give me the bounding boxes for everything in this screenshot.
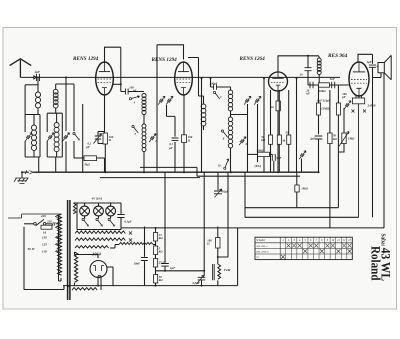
wire L2 y217 [245, 216, 359, 218]
divider feed lead [110, 245, 119, 249]
capacitor 300pF [214, 84, 217, 90]
node x264 [263, 77, 265, 79]
wire 100pF line [121, 91, 144, 93]
switch contact 11 [82, 218, 84, 220]
coil L2 secondary [53, 89, 58, 94]
wire main signal line y77 [40, 76, 341, 78]
wire L3 y227 [121, 227, 384, 229]
ground lead [22, 172, 29, 178]
svg-text:13: 13 [112, 223, 116, 227]
svg-text:pF: pF [341, 95, 346, 99]
switch contact 13 [108, 218, 110, 220]
svg-text:Feld: Feld [224, 268, 231, 272]
capacitor 4uF [369, 65, 376, 67]
switch contact 8 [221, 130, 223, 132]
wire 5k to cathode net [97, 158, 105, 172]
wire L4 to bus [55, 157, 57, 172]
tube V3 RENS 1264 [269, 72, 288, 91]
lamp bus bottom [77, 203, 121, 230]
resistor wirewound feed [119, 242, 153, 244]
wire row rail c low [288, 144, 290, 172]
wire rail x257 [257, 104, 259, 162]
coil detector [317, 58, 321, 62]
heater mark a [352, 110, 355, 113]
resistor row3 [287, 135, 291, 144]
node det top [307, 55, 309, 57]
lamp bus top [73, 202, 121, 204]
bus y177 [100, 177, 200, 179]
heater winding 1 end [129, 231, 132, 234]
primary top lead [8, 214, 61, 218]
wire pot rail [343, 108, 345, 133]
wire y270 [156, 270, 205, 272]
10nF low [144, 261, 146, 285]
resistor row2 [277, 135, 281, 144]
wire V3 plate drop [277, 91, 279, 101]
wire TA cap stub [273, 154, 275, 172]
capacitor 20nF grid [310, 82, 313, 88]
wire rail x372 [372, 78, 374, 218]
svg-text:5kΩ: 5kΩ [85, 163, 91, 167]
capacitor 100pF [126, 89, 129, 95]
lamp 2 lower lead [98, 215, 100, 218]
05uF low [201, 280, 203, 286]
dial lamp 1 [80, 206, 90, 216]
svg-text:10nF: 10nF [134, 262, 141, 266]
capacitor 1uF box [317, 103, 321, 115]
svg-text:50µF: 50µF [222, 189, 229, 193]
wire rail x296 [296, 78, 298, 172]
resistor 100 Ohm field [216, 238, 220, 249]
node divider feed [155, 227, 157, 229]
wire L left vertical [244, 172, 246, 217]
filament winding lead [98, 276, 101, 290]
divider top [155, 228, 157, 233]
svg-text:125: 125 [42, 242, 47, 246]
potentiometer 1MOhm volume [342, 133, 346, 144]
bus y167 step [140, 167, 300, 176]
lamp cap stub [120, 203, 122, 214]
switch contact 10 [225, 159, 228, 167]
field res low [217, 248, 219, 264]
tube V2 RENS 1294 [175, 62, 193, 95]
wire rail x201 upper [201, 78, 203, 172]
tube V1 RENS 1294 [96, 62, 114, 95]
resistor divider 5k [154, 246, 158, 255]
resistor bias 24500 [352, 98, 364, 104]
trimmer 100pF [344, 101, 351, 109]
svg-text:5nF: 5nF [330, 77, 335, 81]
svg-text:µF: µF [85, 145, 90, 149]
coil L1 antenna primary [35, 92, 40, 97]
wire rail x264 [263, 78, 265, 172]
wire IF1 to bus [143, 152, 145, 173]
trimmer 6 [149, 134, 156, 142]
wire pot low [338, 144, 344, 152]
wire rail x66 lower [65, 142, 67, 173]
lamp 2 lead [98, 203, 100, 207]
svg-text:4V 0,9A: 4V 0,9A [91, 197, 103, 201]
resistor divider 25k [154, 259, 158, 268]
wire row rail b low [278, 144, 280, 172]
svg-text:RES 964: RES 964 [328, 53, 348, 59]
wire L3 to bus [38, 157, 40, 172]
capacitor 50uF arrow [215, 189, 222, 198]
svg-text:50: 50 [286, 130, 290, 134]
node bus bottom a [97, 285, 99, 287]
wire det cap drop [307, 56, 309, 85]
svg-text:0,1µF: 0,1µF [124, 220, 131, 224]
wire rail x157 [156, 45, 158, 172]
node bus d [230, 171, 232, 173]
variable capacitor gang section 2b [166, 96, 173, 104]
node bus a [104, 171, 106, 173]
switch contact 11 pickup [299, 151, 306, 159]
capacitor 0,1uF lamp [117, 215, 124, 218]
resistor 100 Ohm cathode V2 [182, 135, 187, 143]
svg-text:11: 11 [86, 223, 89, 227]
svg-text:4k: 4k [281, 139, 286, 143]
svg-text:220: 220 [46, 220, 52, 224]
svg-text:(1MΩ): (1MΩ) [322, 107, 330, 111]
wire V3 below 4k [277, 111, 279, 172]
svg-text:TA: TA [256, 256, 259, 259]
wire 1M stub [296, 172, 298, 185]
wire switch 10 rail [218, 172, 228, 257]
node y270 cross [203, 270, 205, 272]
HV bottom lead [74, 283, 76, 286]
fuse 1A [41, 225, 52, 229]
svg-text:10: 10 [218, 164, 222, 168]
wire af line y85 [308, 84, 349, 86]
resistor 50kOhm row1 [269, 135, 273, 144]
coil osc secondary [228, 117, 232, 121]
field res stub [217, 227, 219, 238]
1uF to y270 [164, 266, 166, 271]
heater mark b [363, 110, 366, 113]
wire trimmer jog [167, 105, 176, 116]
wire osc link [231, 111, 248, 117]
wire cap2 low [318, 139, 320, 172]
svg-text:50 W: 50 W [28, 247, 36, 251]
svg-text:12: 12 [100, 223, 104, 227]
tube V4 RES 964 [349, 62, 369, 96]
antenna [10, 59, 32, 78]
mains lead 2 [46, 222, 59, 225]
wire cap 01uF stub down [174, 142, 176, 172]
wire 1M to L-wire [296, 192, 298, 208]
capacitor 2uF [315, 136, 323, 139]
wire antenna to coupling cap [20, 76, 36, 79]
node ground tie [21, 171, 23, 173]
transformer lamp winding [73, 203, 76, 214]
rectifier right lead [107, 267, 113, 286]
capacitor 5nF af [332, 82, 335, 88]
coil L4 tuned [54, 123, 59, 128]
transformer HV winding [75, 252, 78, 282]
bottom bus arrow [68, 284, 71, 287]
tuned circuit 2 frame [47, 113, 62, 157]
svg-text:2µF: 2µF [309, 137, 315, 141]
wire IF1 link [143, 115, 145, 125]
wire row rail c [288, 90, 290, 135]
lamp 3 lower lead [110, 215, 112, 218]
divider bottom [155, 283, 157, 286]
dial lamp 2 [94, 206, 104, 216]
svg-text:0,5µF: 0,5µF [193, 281, 200, 285]
coil L3 tuned [31, 125, 36, 130]
bus main y172 [33, 171, 319, 173]
capacitor 0,5uF box [336, 103, 340, 115]
wire V4 below box [356, 96, 362, 217]
wire L1 y207 [245, 207, 338, 209]
resistor 10kOhm [319, 83, 330, 87]
voltage selector arrows [56, 215, 59, 253]
svg-text:Roland: Roland [369, 246, 383, 281]
wire V4 plate top [358, 54, 373, 62]
rectifier bottom lead [97, 276, 99, 286]
capacitor 50uF [214, 191, 222, 194]
capacitor 1uF feed [164, 172, 166, 262]
variable capacitor tuning gang section 1 [63, 133, 70, 141]
svg-text:1A: 1A [43, 231, 47, 235]
wire 50uF stub [217, 172, 219, 190]
wire coil G stubs [188, 58, 204, 131]
coil anode choke V2 [201, 104, 206, 109]
node riser junction [120, 83, 122, 85]
wire coilA top [37, 77, 39, 92]
node antenna junction [37, 76, 39, 78]
node x66 [65, 76, 67, 78]
wire rail x74 lower [73, 141, 75, 158]
resistor 4 kOhm [276, 101, 280, 111]
speaker [378, 63, 384, 73]
svg-text:5nF: 5nF [276, 156, 281, 160]
svg-text:RENS 1294: RENS 1294 [152, 57, 178, 63]
svg-text:1µF: 1µF [170, 266, 175, 270]
node bus b [143, 171, 145, 173]
wire coil L3 stubs [33, 115, 35, 158]
mains lead [24, 223, 34, 225]
lamp cap low [120, 218, 122, 230]
wire V1 top cap [105, 47, 121, 91]
switch contact 4 [132, 96, 140, 99]
divider link3 [155, 267, 157, 275]
wire outer rail x384 [383, 73, 385, 228]
wire box1 stubs [318, 85, 320, 134]
potentiometer arrow [339, 132, 349, 147]
wire coilB drop [55, 84, 57, 89]
trimmer 9 [239, 137, 246, 145]
transformer bias winding [75, 246, 109, 248]
divider link1 [155, 241, 157, 246]
wire 4uF to speaker [373, 67, 382, 77]
wire between L1 frame1 [37, 108, 39, 115]
svg-text:240: 240 [40, 214, 46, 218]
svg-text:300pF: 300pF [209, 81, 218, 85]
wire row rail a low [270, 144, 272, 172]
lamp 3 lead [110, 203, 112, 207]
bottom bus y286 [63, 285, 238, 287]
variable capacitor gang section 3a [244, 96, 251, 104]
capacitor 0,5uF [198, 277, 206, 280]
node x210 [210, 77, 212, 79]
wire rail x74 upper [56, 84, 74, 131]
svg-text:µF: µF [168, 146, 173, 150]
node bus f [318, 171, 320, 173]
wire rail x210 [210, 78, 212, 87]
coil osc primary [228, 90, 232, 94]
wire rail x66 upper [65, 77, 67, 131]
wire det coil top [318, 56, 320, 58]
resistor divider 50k [154, 275, 158, 284]
node bus bottom b [155, 285, 157, 287]
wire V2 top cap [157, 45, 184, 60]
capacitor 0,1uF V2 cathode [172, 138, 179, 141]
wire TA right [269, 153, 272, 155]
capacitor 10nF [141, 258, 148, 261]
switch contact 7 [213, 91, 215, 93]
switch table grid [255, 237, 352, 259]
svg-text:20: 20 [299, 73, 304, 77]
tuned circuit 1 frame [25, 85, 40, 157]
mains switch [34, 223, 37, 226]
svg-text:1MΩ: 1MΩ [301, 186, 308, 190]
svg-text:200–600 m: 200–600 m [256, 245, 267, 248]
switch contact 12 [96, 218, 98, 220]
table cross marks [281, 244, 352, 259]
wire between L2 frame2 [55, 108, 57, 113]
node x296 top [296, 77, 298, 79]
transformer primary winding [58, 214, 62, 275]
trimmer C2 wave switch [47, 133, 54, 141]
resistor 100 Ohm cathode V1 [103, 133, 108, 144]
wire 300pF line [211, 87, 231, 90]
node y270 [164, 270, 166, 272]
coil IF1 primary [142, 94, 146, 98]
node 05uF [201, 285, 203, 287]
wire speaker feed [377, 65, 378, 67]
wire to 5k box [74, 157, 84, 159]
wire tube1 plate link [113, 83, 121, 85]
wire TA left [248, 153, 258, 155]
wire det coil bottom [318, 75, 320, 83]
node x201 [201, 77, 203, 79]
wire rail x247 [247, 104, 249, 172]
svg-text:nF: nF [306, 92, 310, 96]
svg-text:(TA): (TA) [255, 164, 261, 168]
capacitor 4nF antenna coupling [37, 74, 40, 81]
wire V4 cathode drop [358, 96, 360, 101]
node feld junction [217, 256, 219, 258]
capacitor 5nF TA [272, 154, 275, 160]
capacitor 0,1uF V1 arrow [94, 134, 102, 144]
wire V3 top cap [278, 56, 319, 73]
wire 4uF drop [372, 54, 374, 64]
right vertical x237 [237, 228, 239, 286]
capacitor cathode bypass V1 [95, 136, 101, 139]
dial lamp 3 [106, 206, 116, 216]
wire pickup rail [301, 159, 303, 173]
svg-text:4nF: 4nF [34, 70, 41, 74]
05uF stub [203, 172, 205, 276]
switch contact 2 [73, 132, 75, 134]
svg-text:4µF: 4µF [366, 60, 372, 64]
selector to primary [59, 252, 62, 282]
coil IF1 secondary [142, 124, 146, 128]
wire V2 cathode to bus [183, 143, 185, 173]
wire V2 cathode [183, 95, 185, 135]
mains return [24, 227, 64, 290]
capacitor 1uF divider [161, 264, 169, 267]
heater winding 2 end [129, 238, 132, 241]
transformer heater winding 1 [75, 231, 125, 234]
10nF stub [144, 227, 146, 257]
lamp 1 lower lead [84, 215, 86, 218]
resistor 50kOhm TA [258, 152, 270, 156]
wire V1 cathode [104, 95, 106, 133]
transformer filament winding [72, 288, 97, 290]
capacitor 0,5uF arrow [197, 275, 204, 284]
svg-text:800–2000 m: 800–2000 m [256, 250, 269, 253]
svg-text:24500: 24500 [367, 104, 376, 108]
node bus e [277, 171, 279, 173]
transformer core [68, 200, 70, 300]
wire box2 stubs [337, 85, 339, 208]
field coil low [217, 280, 219, 285]
variable capacitor gang section 3b [254, 96, 261, 104]
divider feed tie [153, 244, 156, 246]
wire cap 01uF stub up [174, 116, 176, 136]
selector rail [58, 216, 60, 252]
node bus c [183, 171, 185, 173]
svg-text:10kΩ: 10kΩ [319, 89, 327, 93]
transformer heater winding 2 [75, 238, 125, 241]
svg-text:RENS 1264: RENS 1264 [240, 56, 266, 62]
switch contact 5 [132, 125, 134, 127]
trimmer C1 wave switch [25, 133, 32, 141]
lamp 1 lead [84, 203, 86, 207]
resistor 5kOhm [84, 156, 97, 161]
wire 50k af low [329, 144, 331, 228]
svg-text:RENS 1294: RENS 1294 [73, 56, 99, 62]
svg-text:Schalter: Schalter [256, 239, 266, 242]
resistor 1MOhm bleeder [295, 185, 299, 192]
wire 50k af rail [329, 90, 331, 133]
divider link2 [155, 255, 157, 259]
ground [14, 178, 29, 184]
wire y84 link left [25, 84, 38, 86]
capacitor det 20pF [305, 68, 312, 71]
rectifier tube 1064 [90, 261, 107, 278]
wire row rail a [270, 90, 272, 135]
resistor 50kOhm af [328, 133, 332, 144]
net break symbol [25, 170, 33, 174]
wire V1 cathode to bus [104, 144, 106, 172]
svg-text:150: 150 [42, 235, 47, 239]
wire row rail b [278, 90, 280, 135]
wire coil L4 stubs [56, 113, 58, 157]
variable capacitor gang section 2a [158, 96, 165, 104]
rectifier top lead [75, 252, 99, 258]
wire cap stub V1 [98, 132, 105, 144]
wire osc to bus [230, 148, 232, 172]
field coil [218, 264, 221, 279]
resistor divider 15k [154, 233, 158, 242]
svg-text:110: 110 [42, 249, 47, 253]
svg-text:1MΩ: 1MΩ [348, 137, 355, 141]
wire rail x83 [82, 104, 84, 172]
